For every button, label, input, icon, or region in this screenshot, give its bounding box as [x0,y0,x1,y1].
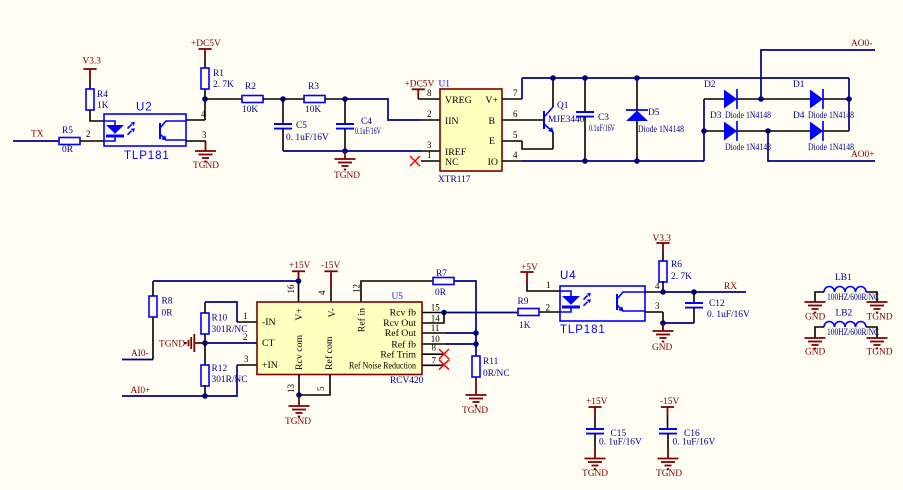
pin stub 11 [422,323,476,333]
node R10/R12 CT junction [204,334,206,343]
pin stub 10 [422,334,476,344]
wire U4 pin3 down [645,301,663,323]
power V3.3 (R6) [653,234,672,261]
svg-text:7: 7 [432,355,437,365]
power V3.3 [83,57,102,90]
svg-text:+DC5V: +DC5V [191,39,221,49]
resistor R9 [518,297,540,331]
wire R2 to C5 node [263,98,304,100]
U2 light arrows [128,122,135,135]
svg-text:0R: 0R [62,145,74,155]
svg-text:AI0+: AI0+ [131,386,151,396]
svg-text:7: 7 [513,88,518,98]
wire AO0- [761,50,875,99]
svg-text:R3: R3 [308,82,319,92]
svg-text:V+: V+ [294,308,305,321]
svg-text:3: 3 [427,140,432,150]
wire IO rail bottom [522,160,704,162]
capacitor C15 [586,429,642,448]
svg-text:AO0-: AO0- [851,39,872,49]
svg-text:U5: U5 [392,292,404,302]
wire bridge bottom row [704,130,849,132]
svg-text:Diode 1N4148: Diode 1N4148 [638,125,684,135]
svg-text:4: 4 [201,109,206,119]
wire bottom row to U1 IREF [283,150,421,152]
capacitor C3 [576,78,615,161]
resistor R4 [86,89,109,111]
wire LB1 right [866,292,877,302]
wire R6 to node [662,281,664,292]
wire LB2 right [866,327,877,338]
svg-text:8: 8 [432,343,437,353]
resistor R2 [242,82,263,115]
pin stub U1 pin1 NC [421,160,440,162]
resistor R10 [201,313,247,335]
svg-text:D3: D3 [710,111,722,121]
svg-text:R1: R1 [213,69,224,79]
svg-text:D4: D4 [793,111,805,121]
pin stub U1 pin7 [502,88,522,99]
pin stub 8 with X [422,343,449,360]
resistor R5 [59,126,80,155]
svg-text:0R: 0R [435,288,447,298]
node pin11 junction [473,330,479,336]
wire AI0- to R8 [122,359,153,361]
wire U4 pin4 to RX row [645,291,663,293]
ground TGND (C4/C5) [334,151,360,181]
power -15V (RCV420) [321,261,340,302]
svg-text:2: 2 [86,129,91,139]
svg-text:301R/NC: 301R/NC [212,375,248,385]
svg-text:6: 6 [513,109,518,119]
resistor R7 [433,269,454,298]
diode D3 [710,111,771,153]
svg-text:16: 16 [286,284,296,294]
wire top rail [522,77,849,79]
ground TGND (CT) left-pointing [159,334,205,352]
svg-text:2: 2 [546,303,551,313]
svg-text:1K: 1K [519,321,531,331]
svg-text:IIN: IIN [445,116,459,127]
svg-text:RX: RX [724,282,737,292]
ground GND (U4) [652,323,674,353]
wire R1 to node [204,89,206,99]
svg-text:10K: 10K [305,105,321,115]
svg-text:11: 11 [431,323,440,333]
wire node to R2 [205,98,242,100]
wire rail corner down [848,78,850,99]
svg-text:C5: C5 [296,121,307,131]
node pin13 junction [296,392,302,398]
wire pin13/5 to TGND [286,375,330,396]
op-amp U4 optocoupler box [560,286,645,321]
svg-text:C3: C3 [598,113,609,123]
capacitor C16 [659,429,715,448]
svg-text:Diode 1N4148: Diode 1N4148 [808,111,854,121]
svg-text:-15V: -15V [321,261,340,271]
node C12 junction top [691,289,697,295]
svg-text:V+: V+ [485,95,498,106]
node C4/TGND junction [342,148,348,154]
resistor R12 [201,343,247,386]
node C5 junction [280,96,286,102]
op-amp U2 optocoupler box [104,114,186,146]
power +DC5V (R1) [191,39,221,68]
diode D4 [793,111,854,153]
svg-text:Q1: Q1 [557,101,569,111]
svg-text:10K: 10K [242,105,258,115]
svg-text:1: 1 [546,280,551,290]
svg-text:TGND: TGND [582,469,608,479]
pin stub U1 pin6 to Q1 base [502,109,543,120]
ground TGND (U5) [285,395,311,427]
node pin10 junction [473,341,479,347]
svg-text:TGND: TGND [159,340,185,350]
svg-text:+IN: +IN [262,360,278,371]
node AO0+ tap [765,128,771,134]
svg-text:1: 1 [427,150,432,160]
node bridge right top [846,96,852,102]
wire U2 pin4 up to R1 node [186,99,206,120]
svg-text:Diode 1N4148: Diode 1N4148 [725,111,771,121]
svg-text:R9: R9 [518,297,529,307]
wire AI0+ to pin3 [122,365,237,396]
power +5V (U4) [520,263,560,291]
wire TX to R5 [13,140,59,142]
pin stub U1 pin2 [421,119,440,121]
svg-text:Ref Out: Ref Out [385,328,417,339]
svg-text:AO0+: AO0+ [851,150,875,160]
svg-text:V-: V- [327,308,338,317]
svg-text:VREG: VREG [445,95,472,106]
ground TGND (LB1) [867,302,893,323]
svg-text:0.1uF/16V: 0.1uF/16V [355,127,381,137]
wire CT to pin2 [205,342,257,344]
svg-text:LB2: LB2 [836,309,853,319]
svg-text:0R: 0R [162,309,174,319]
svg-text:NC: NC [445,157,459,168]
svg-text:Ref com: Ref com [324,336,335,370]
svg-text:C4: C4 [361,117,372,127]
resistor R11 [472,356,510,379]
svg-text:B: B [488,116,495,127]
node C3 top [582,75,588,81]
node bridge left bottom [701,128,707,134]
node AI0+ junction [202,393,208,399]
diode D2 [704,80,771,121]
svg-text:TX: TX [31,130,44,140]
wire pin15 to R9 [444,312,518,314]
svg-text:Diode 1N4148: Diode 1N4148 [808,143,854,153]
node AO0- tap [758,96,764,102]
svg-text:12: 12 [352,284,362,293]
node R6 junction [660,289,666,295]
wire pin5 to Q1 emitter [522,141,553,149]
ground GND (LB2) [805,338,826,358]
svg-text:D5: D5 [648,108,660,118]
wire Q1 collector to rail [552,78,554,99]
wire R5 to U2 pin2 [80,140,104,142]
U5 pin names [262,307,416,371]
capacitor C5 [274,99,329,151]
svg-text:13: 13 [286,384,296,394]
diode D1 [793,80,854,121]
transistor Q1 [544,99,585,149]
U2 LED [104,121,124,141]
svg-text:3: 3 [244,354,249,364]
svg-text:U1: U1 [439,80,451,90]
diode D5 [626,78,684,161]
svg-text:TGND: TGND [656,469,682,479]
svg-text:R2: R2 [245,82,256,92]
svg-text:0R/NC: 0R/NC [483,369,510,379]
svg-text:XTR117: XTR117 [438,175,471,185]
svg-text:R7: R7 [436,269,447,279]
svg-text:D2: D2 [704,80,716,90]
wire R8 up to +15V rail [152,281,154,296]
svg-text:TGND: TGND [193,161,219,171]
wire U2 pin3 to TGND [186,130,207,141]
power +15V (C15) [586,397,608,429]
wire R7 to vertical [454,281,476,356]
svg-text:Ref Noise Reduction: Ref Noise Reduction [349,361,416,372]
svg-text:15: 15 [431,303,441,313]
svg-text:0. 1uF/16V: 0. 1uF/16V [707,310,750,320]
resistor R1 [201,68,234,90]
svg-text:-15V: -15V [660,397,679,407]
svg-text:GND: GND [652,343,673,353]
node Q1 rail junction [550,75,556,81]
power +15V (RCV420) [289,261,311,281]
svg-text:0. 1uF/16V: 0. 1uF/16V [286,133,329,143]
svg-text:TLP181: TLP181 [560,324,606,336]
svg-text:Ref in: Ref in [357,308,368,332]
svg-text:TGND: TGND [285,417,311,427]
svg-text:4: 4 [513,150,518,160]
svg-text:Rcv com: Rcv com [294,335,305,370]
ground TGND (LB2) [867,338,893,358]
svg-text:1K: 1K [97,101,109,111]
pin stub U1 pin3 [421,150,440,152]
svg-text:2: 2 [427,109,432,119]
wire pin7 up to rail [521,78,523,99]
wire LB1 left [815,292,824,302]
node C4 junction [342,96,348,102]
wire bridge right vertical [848,99,850,131]
wire bridge left vertical [703,99,705,161]
svg-text:U2: U2 [136,102,153,114]
pin stub U1 pin5 [502,130,522,141]
wire pin16 [298,281,300,302]
ground GND (LB1) [805,302,826,323]
svg-text:Ref Trim: Ref Trim [380,350,416,361]
wire R4 to U2 pin1 [90,110,104,121]
svg-text:1: 1 [243,311,248,321]
wire R3 to C4 node [325,98,345,100]
wire bridge top row [704,98,849,100]
resistor R6 [659,260,692,282]
svg-text:TGND: TGND [334,171,360,181]
svg-text:3: 3 [202,130,207,140]
U4 LED [560,291,580,312]
svg-text:+15V: +15V [289,261,311,271]
U1 pin names [445,95,498,168]
ground TGND (R11) [462,377,488,416]
power -15V (C16) [660,397,679,429]
node pin3/C12 junction [660,320,666,326]
svg-text:GND: GND [805,348,826,358]
no-connect X on pin1 [410,156,420,166]
pin stub 15 [422,303,444,313]
svg-text:AI0-: AI0- [131,349,149,359]
svg-text:R5: R5 [62,126,73,136]
IC U5 RCV420 body [257,302,422,375]
wire R10 to pin1 [204,302,206,313]
svg-text:TGND: TGND [462,406,488,416]
svg-text:2. 7K: 2. 7K [213,80,234,90]
svg-text:TGND: TGND [867,313,893,323]
node D5 top [634,75,640,81]
svg-text:U4: U4 [560,270,577,282]
inductor LB1 [824,273,879,303]
wire C4 node to U1 IIN [345,99,421,120]
wire R12 to AI0+ [204,385,206,396]
svg-text:TLP181: TLP181 [124,150,170,162]
capacitor C12 [663,292,750,323]
svg-text:2: 2 [243,332,248,342]
wire pin12 to R7 [361,281,433,302]
node R1/R2 junction [202,96,208,102]
svg-text:IO: IO [488,157,498,168]
svg-text:R11: R11 [483,357,499,367]
wire RX [663,291,746,293]
svg-text:3: 3 [655,301,660,311]
svg-text:Rcv fb: Rcv fb [390,307,416,318]
svg-text:4: 4 [655,281,660,291]
svg-text:R6: R6 [671,260,682,270]
svg-text:0. 1uF/16V: 0. 1uF/16V [673,438,716,448]
svg-text:LB1: LB1 [835,273,852,283]
ground TGND (C15) [582,448,608,479]
svg-text:R8: R8 [162,297,173,307]
svg-text:CT: CT [262,338,275,349]
svg-text:5: 5 [513,130,518,140]
wire R9 to U4 pin2 [539,311,560,313]
ground TGND (U2) [193,141,219,171]
svg-text:R12: R12 [212,364,228,374]
U4 light arrows [584,293,591,306]
svg-text:TGND: TGND [867,348,893,358]
IC U1 XTR117 body [440,89,502,171]
svg-text:Diode 1N4148: Diode 1N4148 [725,143,771,153]
svg-text:5: 5 [316,386,326,391]
svg-text:GND: GND [805,313,826,323]
wire LB2 left [815,327,824,338]
svg-text:14: 14 [431,313,441,323]
svg-text:0.1uF/16V: 0.1uF/16V [589,124,615,134]
svg-text:2. 7K: 2. 7K [671,272,692,282]
node pin16 junction [296,278,302,284]
ground TGND (C16) [656,448,682,479]
svg-text:0. 1uF/16V: 0. 1uF/16V [599,438,642,448]
node pin15 junction [441,310,447,316]
capacitor C4 [336,99,381,151]
svg-text:4: 4 [317,290,327,295]
svg-text:Rcv Out: Rcv Out [383,318,416,329]
U4 phototransistor [617,292,645,312]
inductor LB2 [824,309,879,339]
resistor R3 [304,82,325,115]
svg-text:R10: R10 [212,314,228,324]
resistor R8 [149,296,173,319]
wire AO0+ [768,131,875,161]
node C3 bottom [582,158,588,164]
node D5 bottom [634,158,640,164]
svg-text:RCV420: RCV420 [390,376,424,386]
pin stub 14 loop [422,313,444,324]
pin stub U1 pin4 [502,150,522,161]
svg-text:E: E [489,136,495,147]
U2 phototransistor [160,121,186,141]
svg-text:R4: R4 [97,90,108,100]
svg-text:C12: C12 [709,299,725,309]
svg-text:-IN: -IN [262,317,276,328]
svg-text:V3.3: V3.3 [83,57,102,67]
svg-text:D1: D1 [793,80,805,90]
power +DC5V (U1) [405,80,441,100]
pin stub 7 with X [422,355,449,369]
svg-text:8: 8 [427,88,432,98]
svg-text:100HZ/600R/NC: 100HZ/600R/NC [827,328,879,338]
svg-text:+15V: +15V [586,397,608,407]
